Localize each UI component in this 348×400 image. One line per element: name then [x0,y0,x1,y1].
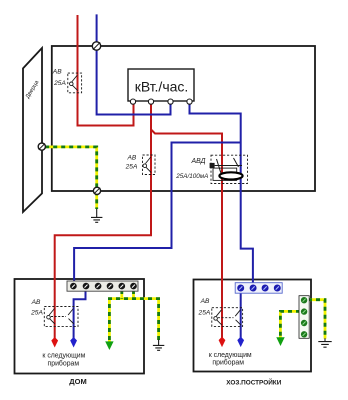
svg-text:кВт./час.: кВт./час. [135,79,189,95]
svg-text:25А: 25А [198,309,211,316]
svg-text:25А: 25А [53,80,66,87]
svg-text:25А: 25А [30,309,43,316]
svg-text:АВД: АВД [191,158,206,165]
svg-text:25А/100мА: 25А/100мА [175,173,208,180]
svg-text:ХОЗ.ПОСТРОЙКИ: ХОЗ.ПОСТРОЙКИ [226,377,281,386]
svg-text:АВ: АВ [127,154,137,161]
svg-text:АВ: АВ [31,299,41,306]
svg-text:приборам: приборам [212,359,244,367]
svg-text:25А: 25А [125,164,138,171]
svg-text:ДОМ: ДОМ [69,377,86,386]
svg-text:АВ: АВ [52,69,62,76]
svg-text:к следующим: к следующим [209,352,252,359]
svg-text:АВ: АВ [200,298,210,305]
svg-text:приборам: приборам [48,359,80,367]
svg-text:к следующим: к следующим [42,352,85,359]
